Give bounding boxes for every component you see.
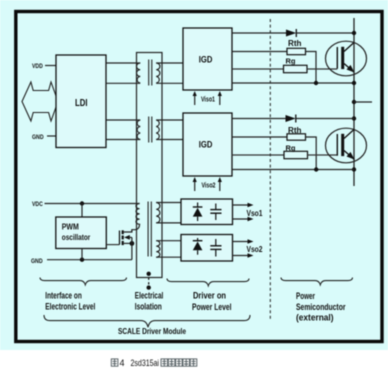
wire T3 sec2 bottom to rectifier2	[156, 256, 181, 258]
svg-text:Power Level: Power Level	[192, 302, 232, 312]
svg-text:Rth: Rth	[288, 39, 302, 48]
label Power Semiconductor (external)	[296, 291, 346, 322]
wire Rg2 to gate Q2	[308, 154, 338, 156]
wire PWM to gate Q3	[107, 244, 120, 246]
svg-text:IGD: IGD	[199, 55, 213, 65]
IGBT Q2	[326, 128, 367, 163]
diode D1	[286, 29, 296, 37]
label Interface on Electronic Level	[45, 291, 95, 312]
transformer T1	[136, 60, 159, 86]
junction Rth2/emitter	[314, 167, 318, 171]
interface double arrow	[22, 82, 58, 121]
wire PWM ground drop	[81, 249, 83, 260]
label Viso1 with arrows	[193, 91, 222, 105]
svg-text:Semiconductor: Semiconductor	[296, 302, 346, 312]
label SCALE Driver Module	[118, 326, 186, 336]
transformer T3 core	[148, 202, 151, 257]
resistor Rg1	[284, 57, 308, 73]
wire T3 sec2 top to rectifier2	[156, 240, 181, 242]
wire LDI to T1 top	[106, 62, 140, 64]
junction GND/PWM	[80, 258, 84, 262]
wire Rg1 to gate Q1	[307, 68, 337, 70]
MOSFET Q3	[120, 230, 135, 260]
IGBT Q1	[326, 41, 367, 76]
node phase output stub	[352, 100, 372, 104]
label Electrical Isolation	[135, 291, 164, 312]
junction rail/emitter2	[352, 167, 356, 171]
transformer T3 secondary2	[156, 241, 160, 258]
wire VDD stub	[45, 65, 56, 67]
wire T2 to IGD2 bottom	[156, 139, 183, 141]
node VDC	[32, 201, 43, 208]
brace power semiconductor section	[281, 278, 353, 285]
wire T3 sec1 top to rectifier1	[156, 202, 181, 204]
node VDD	[32, 63, 43, 70]
rail DC bus	[353, 18, 355, 186]
brace driver section	[167, 279, 249, 286]
resistor Rth2	[287, 126, 306, 140]
isolation dashed link	[147, 272, 151, 290]
wire D1 to rail	[296, 32, 354, 34]
wire GND lower	[47, 259, 132, 261]
svg-text:Vso2: Vso2	[247, 244, 263, 254]
wire IGD2 out4 emitter return	[232, 169, 354, 171]
dashed separator driver/power	[269, 19, 271, 320]
svg-text:VDD: VDD	[32, 63, 43, 70]
svg-text:GND: GND	[31, 258, 43, 265]
node GND lower	[31, 258, 43, 265]
rectifier block channel1	[181, 199, 233, 225]
svg-text:GND: GND	[32, 134, 44, 141]
wire D2 to rail	[296, 118, 354, 120]
label Viso2 with arrows	[193, 177, 222, 191]
svg-text:LDI: LDI	[75, 98, 88, 109]
node GND	[32, 134, 44, 141]
svg-text:Viso2: Viso2	[202, 180, 216, 189]
svg-text:Viso1: Viso1	[201, 95, 216, 104]
svg-text:Rg: Rg	[286, 143, 296, 152]
junction rail/emitter1	[352, 81, 356, 85]
output Vso2 arrows	[233, 239, 263, 257]
wire IGD2 out2 to Rth2	[232, 136, 287, 138]
block PWM oscillator	[56, 217, 107, 249]
wire IGD2 out1 to diode D2	[232, 118, 286, 120]
svg-text:Electronic Level: Electronic Level	[45, 302, 95, 312]
block LDI U1	[56, 55, 106, 148]
svg-text:4: 4	[120, 358, 125, 368]
block IGD channel1	[183, 28, 232, 90]
wire Rth1 to emitter node	[306, 52, 317, 84]
svg-text:oscillator: oscillator	[62, 232, 91, 242]
svg-text:Isolation: Isolation	[135, 302, 162, 312]
svg-text:Vso1: Vso1	[247, 208, 263, 218]
junction Rth1/emitter	[314, 81, 318, 85]
transformer T3 secondary1	[156, 203, 160, 223]
junction rail/D2	[352, 116, 356, 120]
svg-text:Power: Power	[296, 291, 315, 301]
wire T2 to IGD2 top	[156, 119, 183, 121]
wire Rth2 to emitter node	[306, 137, 317, 170]
wire PWM supply drop	[81, 204, 83, 218]
svg-text:VDC: VDC	[32, 201, 43, 208]
transformer T3 primary	[132, 204, 140, 233]
svg-text:(external): (external)	[296, 312, 334, 322]
rectifier block channel2	[181, 235, 233, 262]
wire GND stub	[47, 135, 56, 137]
junction VDC/PWM	[80, 201, 84, 205]
svg-text:PWM: PWM	[62, 221, 79, 231]
svg-text:Driver on: Driver on	[193, 291, 226, 301]
wire VDC	[45, 203, 140, 205]
caption figure 4	[120, 358, 160, 368]
wire IGD1 out2 to Rth1	[232, 51, 287, 53]
output Vso1 arrows	[233, 203, 263, 221]
wire IGD1 out4 emitter return	[232, 82, 354, 84]
brace interface section	[40, 278, 127, 285]
svg-text:Interface on: Interface on	[45, 291, 82, 301]
wire LDI to T2 top	[106, 119, 140, 121]
diode D2	[286, 115, 296, 123]
caption CJK approximation	[111, 359, 197, 366]
resistor Rth1	[287, 39, 306, 55]
junction rail/D1	[352, 31, 356, 35]
svg-text:Rg: Rg	[286, 57, 296, 66]
wire T1 to IGD1 bottom	[156, 82, 183, 84]
wire LDI to T2 bottom	[106, 139, 140, 141]
wire LDI to T1 bottom	[106, 82, 140, 84]
wire T3 sec1 bottom to rectifier1	[156, 222, 181, 224]
resistor Rg2	[284, 143, 308, 158]
transformer T2	[137, 117, 159, 143]
brace SCALE driver module	[44, 315, 250, 327]
svg-text:Rth: Rth	[288, 126, 302, 135]
label Driver on Power Level	[192, 291, 232, 312]
wire IGD1 out3 to Rg1	[232, 68, 284, 70]
svg-text:SCALE Driver Module: SCALE Driver Module	[118, 326, 186, 336]
wire T1 to IGD1 top	[156, 62, 183, 64]
wire IGD1 out1 to diode D1	[232, 32, 286, 34]
block IGD channel2	[183, 113, 232, 176]
wire IGD2 out3 to Rg2	[232, 154, 284, 156]
svg-text:IGD: IGD	[199, 140, 213, 150]
isolation strip	[137, 53, 163, 278]
svg-text:2sd315ai: 2sd315ai	[131, 358, 160, 368]
svg-text:Electrical: Electrical	[135, 291, 164, 301]
